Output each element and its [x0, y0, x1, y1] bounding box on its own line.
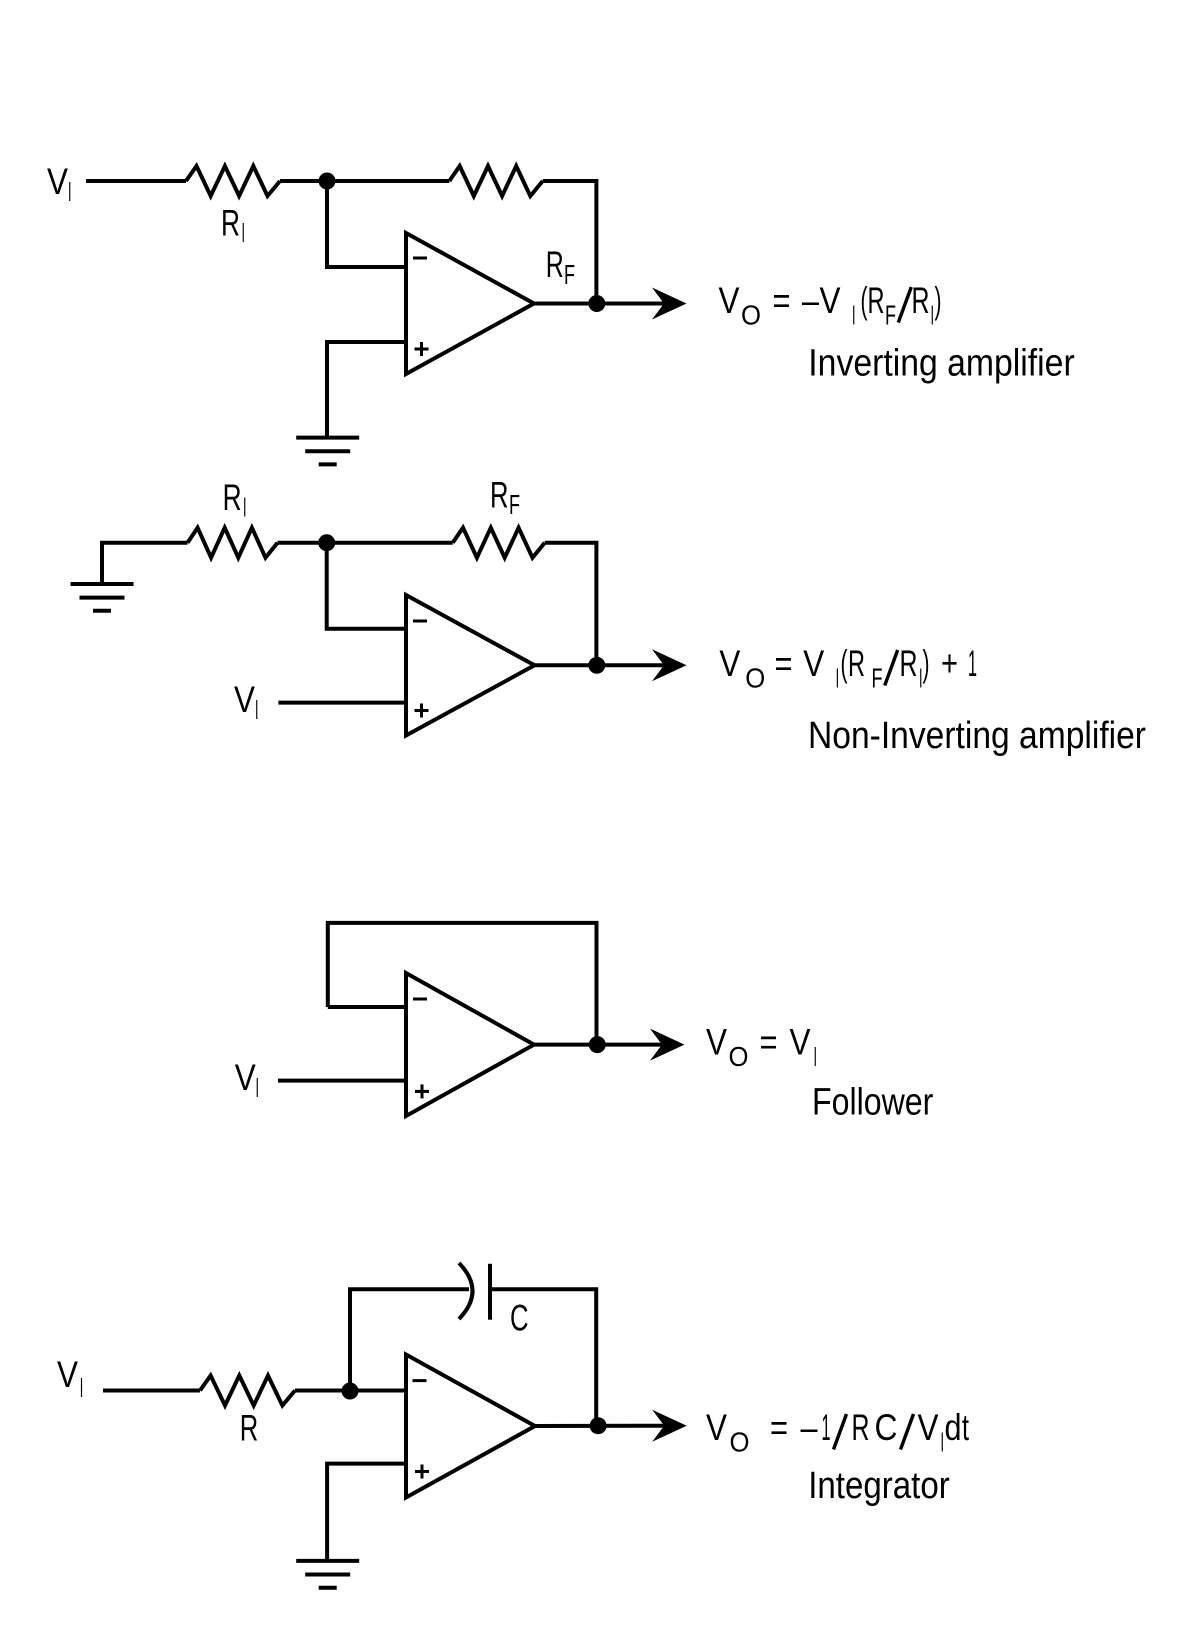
- svg-text:I: I: [931, 300, 935, 331]
- svg-text:V: V: [234, 679, 255, 720]
- svg-text:R: R: [868, 280, 885, 321]
- svg-text:O: O: [745, 663, 765, 694]
- op-amp U3: [406, 973, 534, 1116]
- svg-text:C: C: [875, 1407, 898, 1448]
- svg-text:I: I: [255, 694, 259, 725]
- op-amp U4: [406, 1355, 535, 1498]
- wire output circuit 1: [534, 302, 666, 306]
- wire inverting input jog circuit 2: [327, 543, 406, 629]
- svg-text:V: V: [706, 1022, 727, 1063]
- wire input to R circuit 4: [103, 1389, 200, 1393]
- svg-text:): ): [923, 643, 930, 684]
- wire non-inverting input circuit 3: [278, 1079, 406, 1083]
- label Non-Inverting amplifier: [808, 715, 1146, 757]
- label Integrator: [808, 1465, 950, 1507]
- svg-text:R: R: [546, 244, 564, 285]
- svg-text:C: C: [510, 1298, 529, 1339]
- svg-text:Inverting amplifier: Inverting amplifier: [808, 342, 1075, 384]
- formula V_O = V_I(R_F/R_I) + 1 circuit 2: [719, 643, 977, 694]
- output arrow circuit 1: [652, 288, 687, 320]
- svg-text:d: d: [945, 1407, 962, 1448]
- wire input to R_I circuit 1: [86, 179, 186, 183]
- svg-text:I: I: [814, 1041, 818, 1072]
- svg-text:I: I: [68, 176, 72, 207]
- op-amp U4 minus pin: [413, 1379, 427, 1382]
- svg-text:R: R: [221, 203, 240, 244]
- label R_I circuit 2: [223, 477, 247, 523]
- svg-text:R: R: [490, 475, 509, 516]
- wire ground stub to R_I circuit 2: [102, 543, 188, 584]
- svg-text:O: O: [729, 1041, 749, 1072]
- ground circuit 1: [296, 436, 359, 440]
- label V_I circuit 2: [234, 679, 259, 725]
- svg-text:Integrator: Integrator: [808, 1465, 950, 1507]
- svg-text:–: –: [801, 1407, 818, 1448]
- junction dot node A circuit 1: [319, 173, 336, 190]
- svg-text:F: F: [509, 489, 520, 520]
- wire R_I to R_F circuit 1: [280, 179, 449, 183]
- svg-text:R: R: [848, 643, 865, 684]
- label R_F circuit 2: [490, 475, 520, 521]
- svg-text:F: F: [885, 300, 896, 331]
- wire feedback right corner down to output circuit 1: [543, 181, 597, 304]
- resistor R circuit 4: [200, 1376, 295, 1406]
- label C: [510, 1298, 529, 1339]
- ground circuit 2: [71, 582, 134, 586]
- wire non-inverting input circuit 2: [278, 701, 406, 705]
- resistor R_I circuit 2: [188, 528, 278, 558]
- svg-text:(: (: [841, 643, 848, 684]
- wire feedback loop circuit 3: [328, 923, 597, 1045]
- svg-text:I: I: [80, 1372, 84, 1403]
- svg-text:V: V: [719, 643, 740, 684]
- label Inverting amplifier: [808, 342, 1075, 384]
- svg-text:=: =: [775, 643, 793, 684]
- op-amp U1 plus pin: [415, 348, 429, 351]
- formula V_O = -1/RC/V_I dt circuit 4: [706, 1407, 969, 1458]
- junction dot node A circuit 2: [318, 534, 335, 551]
- label V_I circuit 1: [47, 161, 72, 207]
- svg-text:R: R: [912, 280, 930, 321]
- svg-text:–: –: [802, 280, 819, 321]
- op-amp U1: [406, 233, 534, 374]
- resistor R_F circuit 2: [453, 528, 545, 558]
- svg-text:V: V: [235, 1057, 256, 1098]
- wire inverting input jog circuit 1: [327, 181, 406, 267]
- svg-text:V: V: [790, 1022, 811, 1063]
- wire capacitor to output corner circuit 4: [490, 1289, 596, 1426]
- svg-text:1: 1: [968, 643, 977, 684]
- wire inverting input stub circuit 3: [328, 1005, 406, 1009]
- wire R to op-amp circuit 4: [295, 1389, 406, 1393]
- formula V_O = -V_I(R_F/R_I) circuit 1: [719, 280, 942, 331]
- capacitor C curved plate: [459, 1263, 473, 1319]
- op-amp U3 minus pin: [413, 998, 427, 1001]
- svg-text:V: V: [47, 161, 68, 202]
- op-amp U1 minus pin: [413, 257, 427, 260]
- svg-text:I: I: [852, 300, 856, 331]
- svg-text:O: O: [741, 300, 761, 331]
- svg-text:R: R: [223, 477, 242, 518]
- svg-text:): ): [935, 280, 942, 321]
- svg-text:Non-Inverting amplifier: Non-Inverting amplifier: [808, 715, 1146, 757]
- output arrow circuit 3: [650, 1029, 685, 1061]
- wire output circuit 2: [535, 663, 667, 667]
- svg-text:1: 1: [822, 1407, 831, 1448]
- op-amp U2: [406, 595, 535, 736]
- label Follower: [812, 1082, 934, 1124]
- svg-text:=: =: [760, 1022, 778, 1063]
- output arrow circuit 4: [652, 1410, 687, 1442]
- op-amp U2 plus pin: [415, 709, 429, 712]
- output node dot circuit 4: [590, 1417, 607, 1434]
- svg-text:R: R: [852, 1407, 870, 1448]
- svg-text:V: V: [918, 1407, 939, 1448]
- resistor R_F (feedback) circuit 1: [449, 166, 542, 196]
- svg-text:V: V: [706, 1407, 727, 1448]
- op-amp U3 plus pin: [415, 1090, 429, 1093]
- svg-text:I: I: [242, 217, 246, 248]
- svg-text:V: V: [57, 1354, 78, 1395]
- wire feedback right corner down circuit 2: [545, 543, 597, 666]
- label R_I circuit 1: [221, 203, 245, 249]
- svg-text:=: =: [773, 280, 791, 321]
- output node dot circuit 2: [588, 657, 605, 674]
- svg-text:V: V: [719, 280, 740, 321]
- output node dot circuit 1: [588, 295, 605, 312]
- formula V_O = V_I circuit 3: [706, 1022, 817, 1073]
- label V_I circuit 3: [235, 1057, 259, 1103]
- svg-text:Follower: Follower: [812, 1082, 934, 1124]
- svg-text:=: =: [770, 1407, 788, 1448]
- svg-text:+: +: [941, 643, 958, 684]
- svg-text:F: F: [872, 663, 883, 694]
- svg-text:I: I: [243, 492, 247, 523]
- wire junction up to capacitor circuit 4: [350, 1289, 469, 1390]
- op-amp U4 plus pin: [415, 1470, 429, 1473]
- label R circuit 4: [240, 1408, 258, 1449]
- wire output circuit 4: [535, 1424, 666, 1428]
- svg-text:R: R: [240, 1408, 258, 1449]
- op-amp U2 minus pin: [413, 620, 427, 623]
- wire R_I to R_F circuit 2: [278, 541, 453, 545]
- svg-text:F: F: [564, 259, 575, 290]
- svg-text:t: t: [962, 1407, 969, 1448]
- output arrow circuit 2: [652, 649, 687, 681]
- svg-text:I: I: [836, 663, 840, 694]
- wire non-inverting input circuit 1: [327, 342, 406, 438]
- junction dot node A circuit 4: [342, 1383, 359, 1400]
- svg-text:V: V: [803, 643, 824, 684]
- wire non-inverting input circuit 4: [327, 1464, 406, 1561]
- resistor R_I circuit 1: [186, 166, 280, 196]
- svg-text:V: V: [820, 280, 841, 321]
- capacitor C straight plate: [488, 1264, 492, 1320]
- svg-text:O: O: [730, 1427, 750, 1458]
- svg-text:R: R: [900, 643, 918, 684]
- label R_F circuit 1: [546, 244, 575, 290]
- ground circuit 4: [296, 1559, 359, 1563]
- label V_I circuit 4: [57, 1354, 83, 1403]
- svg-text:I: I: [941, 1427, 945, 1458]
- wire output circuit 3: [534, 1043, 664, 1047]
- output node dot circuit 3: [589, 1036, 606, 1053]
- svg-text:I: I: [256, 1072, 260, 1103]
